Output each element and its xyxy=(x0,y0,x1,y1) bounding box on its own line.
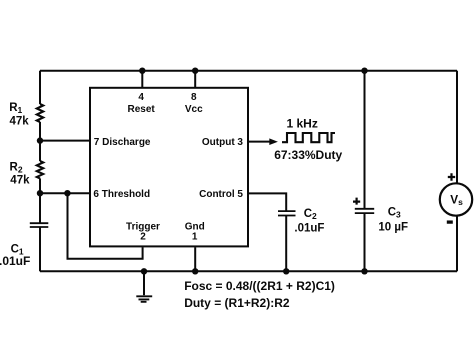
svg-text:Duty = (R1+R2):R2: Duty = (R1+R2):R2 xyxy=(184,296,290,310)
svg-text:7 Discharge: 7 Discharge xyxy=(94,137,151,148)
svg-text:67:33%Duty: 67:33%Duty xyxy=(274,148,342,162)
svg-text:C2: C2 xyxy=(304,208,317,221)
svg-text:R2: R2 xyxy=(10,162,23,175)
svg-text:Reset: Reset xyxy=(127,104,155,115)
svg-text:1: 1 xyxy=(192,231,198,242)
svg-text:Vcc: Vcc xyxy=(185,104,203,115)
svg-text:Vs: Vs xyxy=(450,192,463,207)
svg-text:47k: 47k xyxy=(10,175,30,187)
svg-text:47k: 47k xyxy=(10,115,30,127)
svg-text:1 kHz: 1 kHz xyxy=(287,116,318,130)
svg-text:4: 4 xyxy=(138,92,144,103)
svg-text:Control 5: Control 5 xyxy=(199,189,243,200)
svg-text:.01uF: .01uF xyxy=(294,223,324,235)
svg-text:10 µF: 10 µF xyxy=(378,221,408,233)
svg-text:Fosc = 0.48/((2R1 + R2)C1): Fosc = 0.48/((2R1 + R2)C1) xyxy=(184,279,335,293)
svg-text:R1: R1 xyxy=(9,102,22,115)
svg-text:2: 2 xyxy=(140,231,146,242)
svg-text:.01uF: .01uF xyxy=(0,254,30,268)
svg-text:8: 8 xyxy=(191,92,197,103)
svg-text:6 Threshold: 6 Threshold xyxy=(93,189,150,200)
svg-text:Output 3: Output 3 xyxy=(202,137,244,148)
svg-text:C3: C3 xyxy=(388,207,401,220)
